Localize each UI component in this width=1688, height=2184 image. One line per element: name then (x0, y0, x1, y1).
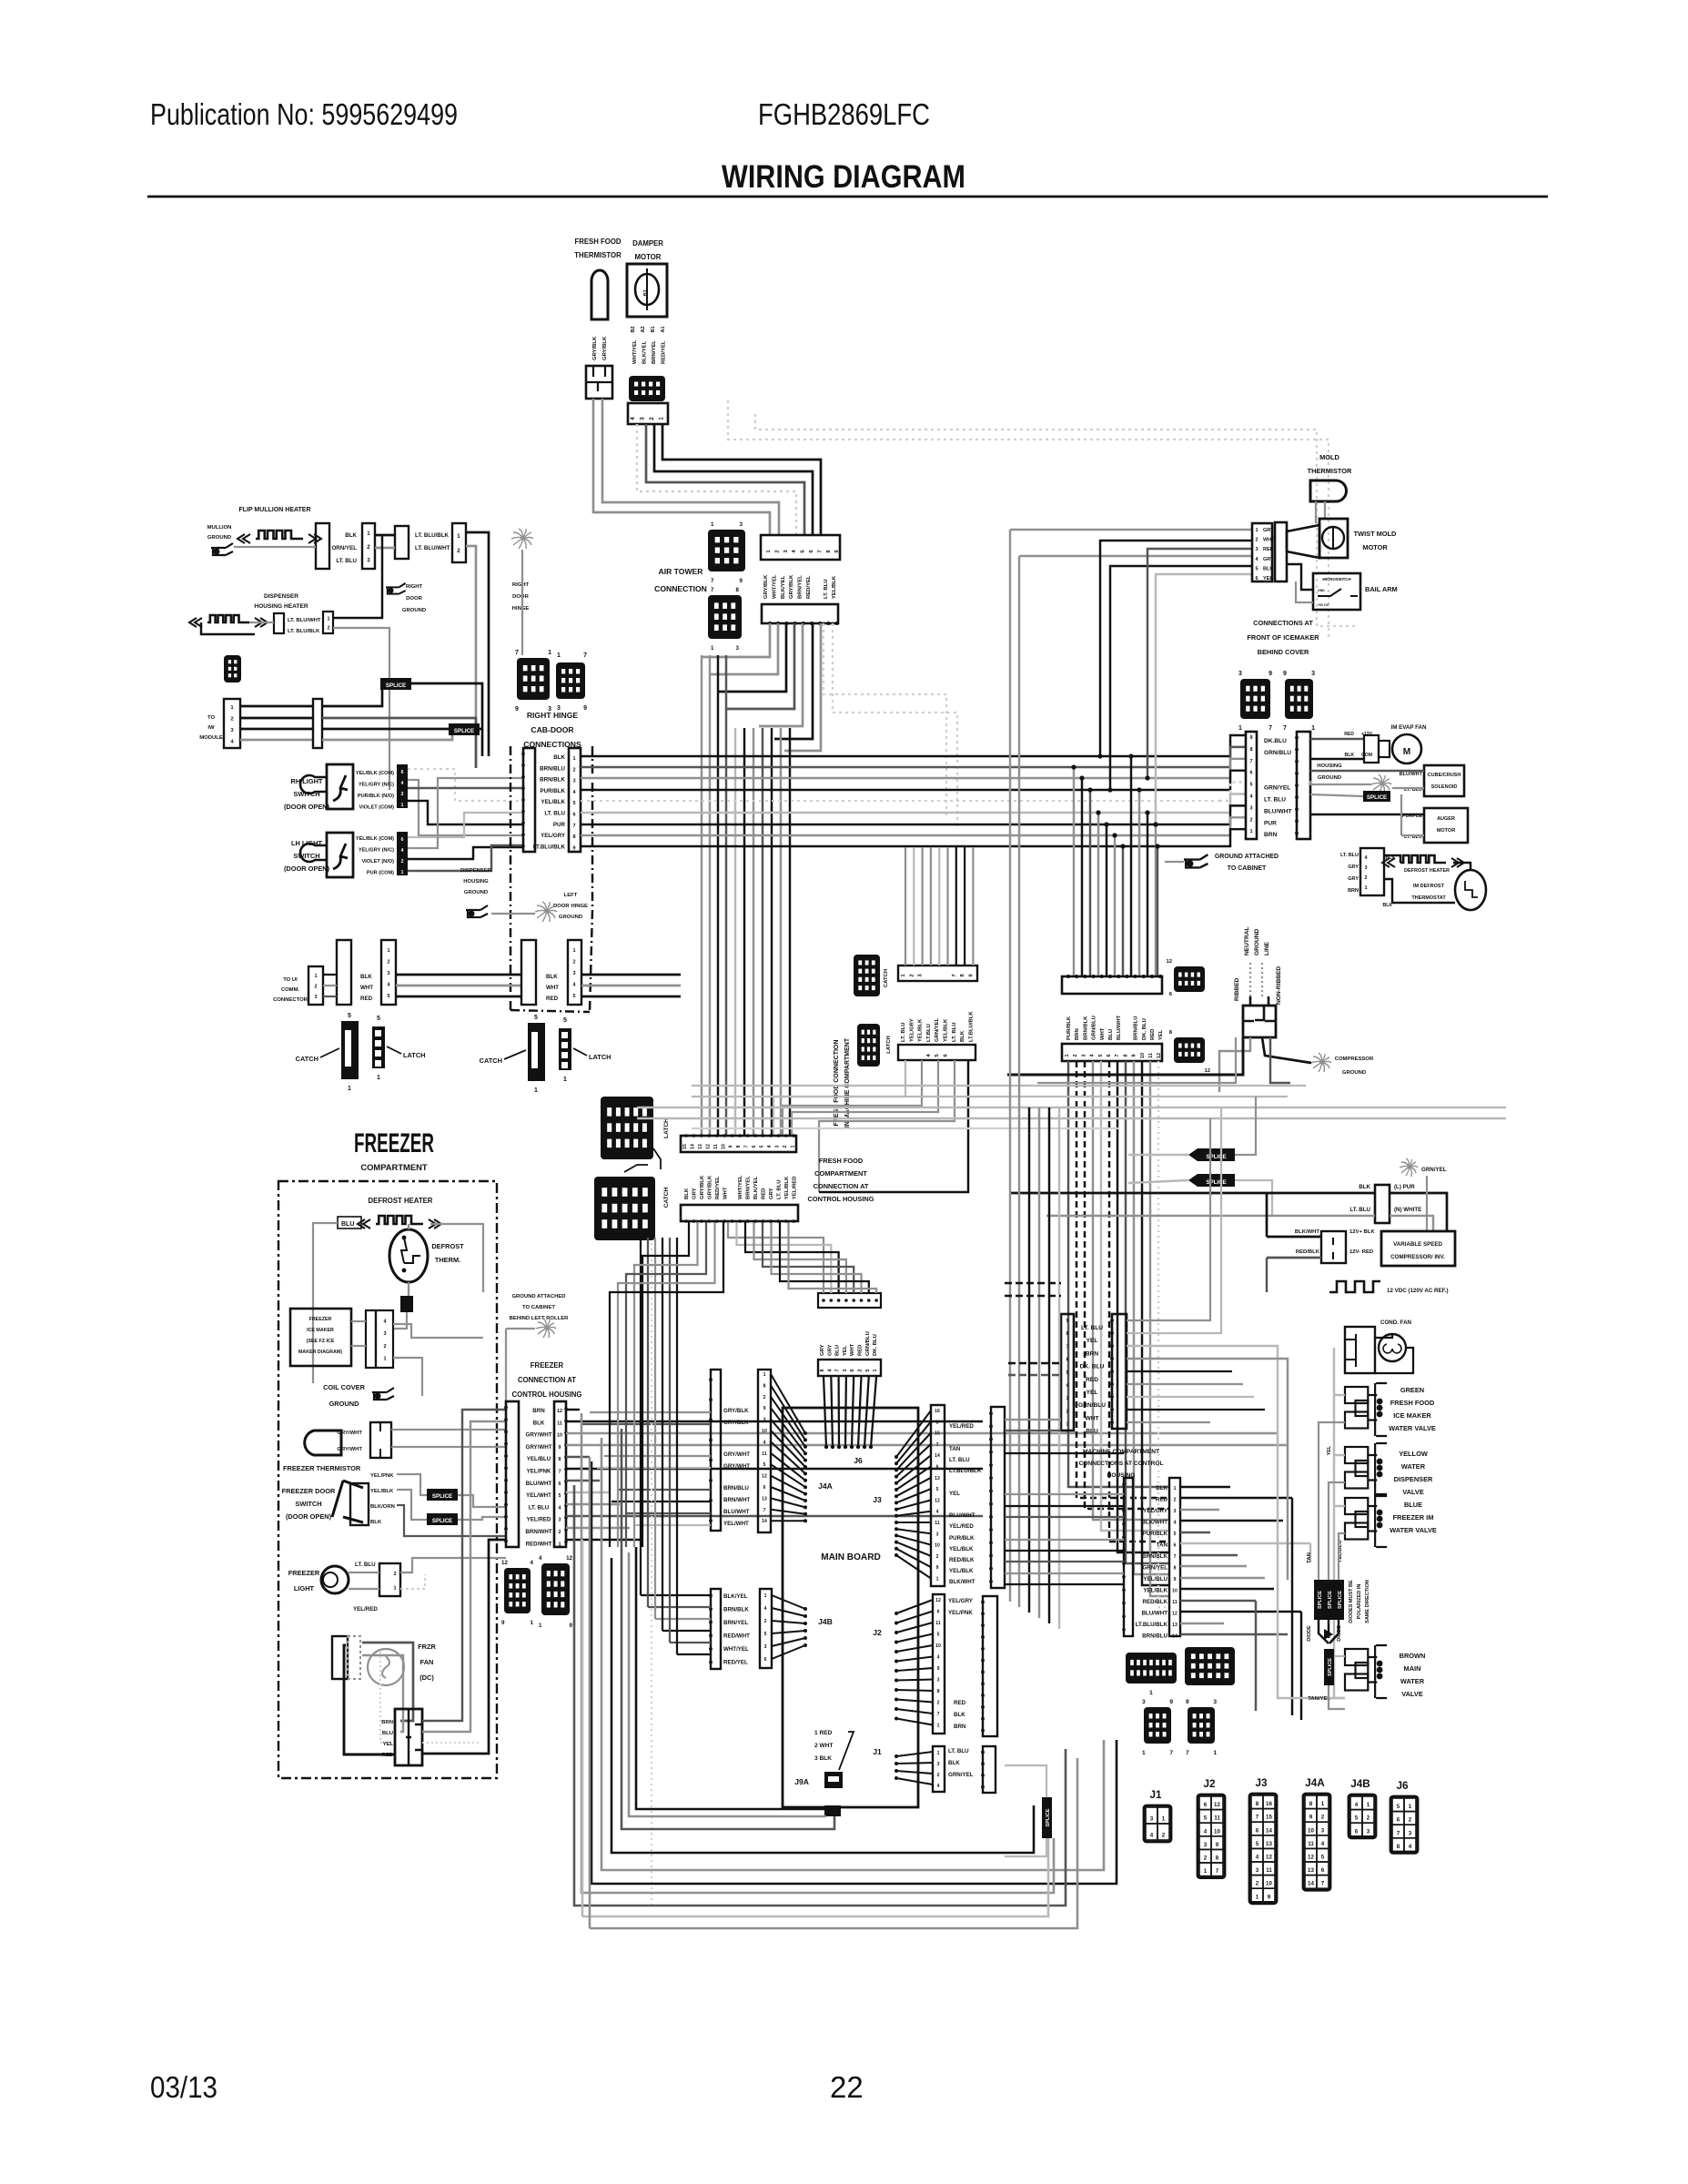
svg-text:YEL/RED: YEL/RED (527, 1517, 551, 1523)
svg-text:GRY/BLK: GRY/BLK (763, 574, 769, 599)
svg-text:2: 2 (327, 625, 329, 631)
svg-text:1: 1 (936, 1577, 939, 1582)
svg-text:GRY: GRY (769, 1188, 774, 1199)
svg-text:GRY/BLK: GRY/BLK (789, 574, 794, 599)
svg-text:1: 1 (327, 616, 329, 622)
damper motor connector (629, 376, 665, 401)
svg-text:1: 1 (1213, 1750, 1217, 1756)
svg-text:9: 9 (936, 1565, 939, 1571)
svg-text:8: 8 (1309, 1801, 1313, 1807)
bottom 3x3 connector B (1188, 1707, 1215, 1744)
svg-text:3: 3 (937, 1762, 940, 1767)
svg-text:SPLICE: SPLICE (1046, 1808, 1051, 1826)
svg-text:12 VDC (120V AC REF.): 12 VDC (120V AC REF.) (1387, 1288, 1449, 1294)
svg-text:COMM.: COMM. (281, 987, 300, 993)
svg-text:LT. BLU: LT. BLU (901, 1023, 906, 1042)
svg-text:RED/YEL: RED/YEL (715, 1176, 721, 1199)
UI wires (323, 974, 337, 976)
svg-text:11: 11 (935, 1521, 940, 1526)
svg-text:GROUND: GROUND (402, 608, 426, 613)
svg-text:5: 5 (1204, 1815, 1208, 1822)
svg-text:2: 2 (1204, 1855, 1208, 1862)
svg-text:RED/BLK: RED/BLK (949, 1557, 975, 1563)
svg-text:13: 13 (935, 1476, 940, 1481)
svg-text:PUR/BLK: PUR/BLK (1143, 1531, 1168, 1537)
svg-text:GROUND: GROUND (1318, 775, 1341, 781)
svg-text:12: 12 (557, 1409, 562, 1414)
gray bus 5 (692, 1096, 1288, 1097)
svg-text:YEL/GRY (N/C): YEL/GRY (N/C) (359, 783, 394, 788)
svg-text:AUGER: AUGER (1437, 816, 1455, 822)
svg-text:YEL: YEL (1263, 576, 1273, 581)
svg-text:LT. BLU: LT. BLU (1081, 1325, 1103, 1331)
RH switch connector (397, 764, 408, 808)
svg-text:IW: IW (207, 725, 215, 731)
svg-text:9: 9 (937, 1666, 940, 1672)
fresh food thermistor bulb (591, 270, 608, 319)
svg-text:9: 9 (1269, 671, 1272, 677)
svg-text:4: 4 (1204, 1828, 1208, 1835)
svg-text:CATCH: CATCH (296, 1055, 318, 1063)
svg-text:SPLICE: SPLICE (1206, 1179, 1226, 1186)
svg-text:4: 4 (767, 1145, 773, 1148)
svg-text:GRY/BLK: GRY/BLK (723, 1408, 749, 1414)
big catch grid connector (594, 1177, 655, 1240)
svg-text:5: 5 (1174, 1532, 1177, 1537)
svg-text:SWITCH: SWITCH (295, 1500, 321, 1508)
svg-text:8: 8 (1249, 747, 1252, 753)
svg-text:MOTOR: MOTOR (1362, 543, 1388, 551)
svg-text:2: 2 (937, 1773, 940, 1778)
splice wires (1128, 1154, 1188, 1156)
bottom black grid connector A (1126, 1653, 1177, 1683)
air tower 9-pin connector lower (762, 604, 838, 623)
svg-text:LT. BLU: LT. BLU (952, 1023, 957, 1042)
svg-text:3: 3 (367, 557, 370, 563)
dispenser housing ground clamp (466, 905, 488, 917)
svg-text:1: 1 (1409, 1804, 1412, 1810)
svg-text:BRN/BLK: BRN/BLK (540, 777, 565, 784)
svg-text:(L) PUR: (L) PUR (1394, 1184, 1415, 1190)
svg-text:WHT: WHT (360, 985, 373, 991)
svg-text:SPLICE: SPLICE (1206, 1154, 1226, 1160)
svg-text:FREEZER DOOR: FREEZER DOOR (282, 1487, 336, 1495)
svg-text:RED: RED (546, 996, 559, 1002)
svg-text:WHT: WHT (1100, 1027, 1106, 1040)
svg-text:GRY/WHT: GRY/WHT (723, 1451, 750, 1458)
svg-text:SPLICE: SPLICE (1318, 1591, 1323, 1609)
small connector WHT BLK (224, 655, 241, 682)
svg-text:15: 15 (682, 1144, 688, 1149)
svg-text:4: 4 (1321, 1841, 1325, 1847)
svg-text:FREEZER: FREEZER (288, 1569, 320, 1577)
svg-text:LT.BLU: LT.BLU (926, 1024, 932, 1042)
svg-text:YEL/GRY: YEL/GRY (909, 1018, 915, 1042)
frzr fan connector (332, 1636, 348, 1679)
svg-text:BLU/WHT: BLU/WHT (1264, 808, 1291, 814)
svg-text:GRN/YEL: GRN/YEL (1264, 785, 1290, 792)
svg-text:5: 5 (1321, 1855, 1325, 1861)
catch connector (341, 1021, 359, 1079)
svg-text:VALVE: VALVE (1401, 1690, 1423, 1698)
svg-text:2: 2 (314, 984, 317, 989)
J6 fan (824, 1376, 826, 1447)
J9A connector (824, 1772, 843, 1788)
svg-text:BLK: BLK (954, 1712, 965, 1718)
roller ground frazzle (536, 1319, 556, 1338)
mid splice A (1198, 1148, 1235, 1161)
svg-text:LT. BLU: LT. BLU (1349, 1207, 1370, 1213)
svg-text:GND: GND (1318, 589, 1325, 592)
svg-text:8: 8 (937, 1689, 940, 1694)
svg-text:11: 11 (713, 1144, 719, 1149)
diode join (1319, 1620, 1329, 1643)
J4B fan (772, 1595, 805, 1609)
svg-text:4: 4 (539, 1555, 542, 1562)
svg-text:12: 12 (1204, 1068, 1210, 1074)
svg-text:BRN/BLK: BRN/BLK (1142, 1553, 1167, 1560)
svg-text:RED: RED (1086, 1377, 1098, 1383)
svg-text:3: 3 (1255, 547, 1258, 552)
svg-text:7: 7 (744, 1145, 750, 1148)
svg-text:3: 3 (936, 1532, 939, 1537)
svg-text:SWITCH: SWITCH (293, 852, 319, 860)
svg-text:FRZR: FRZR (418, 1643, 436, 1651)
J4A connector (758, 1370, 771, 1532)
svg-text:1 RED: 1 RED (814, 1730, 833, 1736)
svg-text:DK. BLU: DK. BLU (873, 1334, 878, 1356)
svg-text:9: 9 (572, 845, 575, 851)
svg-text:MOTOR: MOTOR (635, 253, 662, 261)
svg-text:3: 3 (740, 521, 743, 528)
svg-text:6: 6 (850, 1369, 855, 1371)
svg-text:MULLION: MULLION (207, 525, 232, 531)
svg-text:BLU/WHT: BLU/WHT (1117, 1015, 1122, 1040)
boundary bottom dash (510, 1010, 590, 1012)
svg-text:4: 4 (764, 1606, 767, 1612)
svg-text:LT. BLU: LT. BLU (949, 1457, 970, 1463)
svg-text:BRN: BRN (1348, 888, 1359, 894)
single splice below diodes (1324, 1649, 1334, 1685)
svg-text:2: 2 (558, 1530, 561, 1535)
svg-text:BLK/YEL: BLK/YEL (781, 575, 786, 599)
svg-text:3: 3 (1256, 1867, 1259, 1874)
svg-text:DISPENSER: DISPENSER (460, 868, 492, 874)
freezer light capsule (305, 1431, 341, 1455)
mold thermistor leads (1315, 501, 1317, 523)
svg-text:THERM.: THERM. (435, 1256, 460, 1264)
svg-text:4: 4 (1066, 1383, 1069, 1389)
svg-text:J4B: J4B (818, 1617, 833, 1626)
svg-text:9: 9 (1169, 1699, 1173, 1705)
svg-text:GRN/YEL: GRN/YEL (935, 1017, 940, 1042)
J4B connector (760, 1589, 772, 1668)
svg-text:8: 8 (558, 1457, 561, 1462)
svg-text:7: 7 (1066, 1344, 1069, 1350)
svg-text:MICROSWITCH: MICROSWITCH (1322, 577, 1350, 581)
variable speed compressor box (1381, 1231, 1455, 1266)
svg-text:1: 1 (557, 652, 561, 659)
main horizontal buses from cab-door (581, 755, 1219, 758)
bottom black grid connector B (1185, 1647, 1235, 1685)
svg-text:BRN: BRN (1086, 1350, 1099, 1357)
svg-text:GRY/WHT: GRY/WHT (526, 1444, 552, 1451)
yellow water valve (1345, 1447, 1368, 1463)
svg-text:7: 7 (936, 1442, 939, 1448)
svg-text:A1: A1 (661, 326, 666, 332)
svg-text:YEL/GRY: YEL/GRY (1143, 1508, 1168, 1514)
svg-text:7: 7 (1249, 759, 1252, 764)
defrost heater element right (1400, 855, 1446, 863)
J2 fan (896, 1600, 933, 1613)
svg-text:SPLICE: SPLICE (1338, 1591, 1343, 1609)
svg-text:SPLICE: SPLICE (1367, 794, 1387, 801)
svg-text:RED: RED (1344, 732, 1354, 737)
svg-text:8: 8 (1216, 1855, 1219, 1862)
svg-text:2: 2 (401, 859, 404, 864)
svg-text:TO: TO (207, 715, 215, 721)
svg-text:LEFT: LEFT (564, 893, 578, 898)
svg-text:2: 2 (1367, 1815, 1370, 1822)
svg-text:10: 10 (557, 1433, 562, 1439)
svg-text:GRN/BLU: GRN/BLU (1264, 750, 1291, 756)
therm tail (408, 1282, 409, 1296)
svg-text:LT. BLU/BLK: LT. BLU/BLK (415, 532, 450, 539)
splice tag 1 (380, 678, 411, 690)
svg-text:9: 9 (729, 1145, 734, 1148)
svg-text:2: 2 (383, 1344, 386, 1350)
svg-text:CONNECTIONS AT CONTROL: CONNECTIONS AT CONTROL (1078, 1461, 1163, 1467)
green fresh food valve (1345, 1387, 1368, 1403)
svg-text:CATCH: CATCH (663, 1187, 670, 1208)
wires from damper connector to air tower connector (637, 424, 796, 535)
main board rectangle (783, 1408, 918, 1807)
svg-text:GRY/WHT: GRY/WHT (723, 1463, 750, 1470)
svg-text:M: M (1403, 747, 1410, 757)
svg-text:WHT: WHT (850, 1343, 855, 1356)
svg-text:GRY: GRY (1263, 528, 1274, 533)
svg-text:10: 10 (1140, 1053, 1146, 1058)
svg-text:2: 2 (572, 959, 575, 965)
svg-text:10: 10 (1214, 1828, 1220, 1835)
svg-text:GROUND: GROUND (464, 890, 488, 895)
svg-text:J9A: J9A (794, 1777, 809, 1786)
svg-text:RED: RED (1150, 1029, 1156, 1040)
svg-text:RED/YEL: RED/YEL (806, 575, 812, 599)
svg-text:BLK/YEL: BLK/YEL (753, 1176, 759, 1199)
catch connector (528, 1023, 545, 1081)
svg-text:YEL/BLK: YEL/BLK (784, 1176, 790, 1199)
svg-text:DK. BLU: DK. BLU (1142, 1018, 1147, 1040)
svg-text:BLK/YEL: BLK/YEL (642, 340, 648, 364)
svg-text:13: 13 (1172, 1623, 1178, 1628)
svg-text:DEFROST: DEFROST (431, 1242, 464, 1250)
J4A fan (771, 1374, 805, 1433)
ac plug symbol (1243, 1006, 1276, 1037)
cube/crush solenoid box (1424, 765, 1464, 796)
svg-text:WIRING DIAGRAM: WIRING DIAGRAM (722, 159, 965, 195)
svg-text:2: 2 (1162, 1833, 1166, 1839)
UI connector 3-pin (308, 966, 323, 1005)
svg-text:FRESH FOOD: FRESH FOOD (574, 238, 621, 246)
svg-text:6: 6 (1174, 1543, 1177, 1549)
svg-text:6: 6 (1107, 1054, 1112, 1057)
svg-text:BLU: BLU (1086, 1429, 1098, 1435)
svg-text:LATCH: LATCH (589, 1053, 612, 1061)
svg-text:9: 9 (1066, 1319, 1069, 1324)
svg-text:RH LIGHT: RH LIGHT (291, 777, 323, 785)
housing ground frazzle (1371, 774, 1391, 794)
svg-text:J1: J1 (1149, 1789, 1162, 1801)
fresh food 9-pin connector (898, 966, 977, 981)
svg-text:DOOR: DOOR (512, 594, 529, 600)
svg-text:DOOR HINGE: DOOR HINGE (553, 904, 588, 909)
svg-text:5: 5 (377, 1016, 380, 1022)
fifteen pin left drops (642, 1221, 689, 1547)
svg-text:9: 9 (1186, 1699, 1189, 1705)
svg-text:BLK: BLK (546, 974, 558, 980)
svg-text:4: 4 (1256, 1855, 1259, 1861)
svg-text:3: 3 (763, 1418, 766, 1423)
svg-text:RED: RED (1156, 1497, 1168, 1503)
svg-text:WATER VALVE: WATER VALVE (1389, 1424, 1436, 1432)
svg-text:VIOLET (N/O): VIOLET (N/O) (362, 859, 395, 864)
frzr fan circle (368, 1649, 404, 1685)
svg-text:9: 9 (1249, 735, 1252, 741)
svg-text:1: 1 (383, 1357, 386, 1362)
plug wires down (1219, 1037, 1250, 1092)
svg-text:BRN: BRN (954, 1724, 966, 1730)
svg-text:RED: RED (360, 996, 373, 1002)
door boundary dash-dot right (591, 746, 593, 910)
svg-text:YEL: YEL (383, 1742, 394, 1747)
svg-text:CONNECTIONS AT: CONNECTIONS AT (1253, 619, 1313, 627)
svg-text:13: 13 (1308, 1867, 1314, 1874)
svg-text:1: 1 (1364, 885, 1367, 891)
svg-text:J1: J1 (873, 1747, 882, 1756)
svg-text:7: 7 (937, 1712, 940, 1717)
12vdc square wave (1329, 1281, 1380, 1292)
splice to brown valve wire (1329, 1685, 1345, 1709)
svg-text:YEL/BLK: YEL/BLK (949, 1546, 974, 1552)
svg-text:LT. BLU/WHT: LT. BLU/WHT (415, 545, 450, 551)
splice tag 2 (449, 723, 480, 735)
svg-text:10: 10 (935, 1643, 941, 1649)
svg-text:3: 3 (764, 1644, 767, 1650)
svg-text:LT. BLU: LT. BLU (336, 558, 357, 564)
svg-text:J4A: J4A (1305, 1777, 1325, 1789)
svg-text:1: 1 (367, 531, 370, 537)
svg-text:TO CABINET: TO CABINET (522, 1305, 555, 1310)
svg-text:WHT/YEL: WHT/YEL (632, 339, 638, 364)
svg-text:5: 5 (937, 1633, 940, 1638)
svg-text:YEL/BLK: YEL/BLK (832, 575, 837, 599)
svg-text:FLIP MULLION HEATER: FLIP MULLION HEATER (238, 507, 310, 513)
svg-text:1: 1 (387, 948, 389, 954)
freezer ice maker box (290, 1309, 351, 1366)
mid vertical bundle left of machine bars (1009, 530, 1011, 1602)
svg-text:GROUND: GROUND (1342, 1070, 1366, 1076)
svg-text:1: 1 (937, 1751, 940, 1756)
air tower connector B (708, 595, 742, 639)
brown main valve (1345, 1649, 1368, 1665)
svg-text:13: 13 (698, 1144, 703, 1149)
svg-text:CONNECTION AT: CONNECTION AT (518, 1376, 576, 1384)
svg-text:13: 13 (1266, 1841, 1272, 1847)
svg-text:YEL: YEL (1158, 1029, 1164, 1040)
svg-text:J6: J6 (854, 1456, 863, 1465)
gray bus 2 (637, 1117, 1506, 1119)
svg-text:YEL: YEL (843, 1345, 848, 1356)
J2 connector (933, 1594, 945, 1734)
svg-text:LT.BLU/BLK: LT.BLU/BLK (1136, 1622, 1168, 1628)
fresh food 15-pin lower connector (681, 1205, 798, 1221)
latch connector (559, 1028, 571, 1070)
svg-text:7: 7 (711, 587, 714, 593)
svg-text:COMPARTMENT: COMPARTMENT (814, 1169, 867, 1178)
svg-text:YEL/BLK (COM): YEL/BLK (COM) (356, 771, 394, 776)
svg-text:J3: J3 (1255, 1777, 1268, 1789)
svg-text:8: 8 (1397, 1844, 1400, 1850)
left bar for J4A (711, 1370, 721, 1531)
svg-text:6: 6 (763, 1485, 766, 1491)
svg-text:LT.BLU/BLK: LT.BLU/BLK (949, 1468, 982, 1474)
svg-text:RIGHT: RIGHT (406, 584, 423, 590)
svg-text:6: 6 (764, 1657, 767, 1663)
svg-text:YEL/BLK: YEL/BLK (944, 1018, 949, 1042)
svg-text:11: 11 (762, 1451, 767, 1457)
svg-text:ORN/YEL: ORN/YEL (331, 545, 357, 551)
freezer black grid connector B (541, 1563, 570, 1615)
LH switch connector (397, 832, 408, 875)
svg-text:22: 22 (830, 2070, 864, 2104)
IW long connector (313, 699, 322, 748)
svg-text:BRN/BLU: BRN/BLU (1142, 1633, 1167, 1640)
svg-text:3: 3 (937, 1678, 940, 1683)
bus risers to icemaker 6-pin (1010, 529, 1252, 531)
svg-text:J6: J6 (1396, 1780, 1409, 1792)
svg-text:PUR: PUR (553, 822, 566, 828)
svg-text:RED: RED (954, 1700, 966, 1706)
mold thermistor capsule (1310, 480, 1347, 501)
dashes into 9-pin (1008, 1362, 1061, 1364)
svg-text:GRY: GRY (820, 1344, 825, 1356)
svg-text:1: 1 (1174, 1486, 1177, 1491)
svg-text:BLU: BLU (341, 1221, 354, 1228)
svg-text:TAN: TAN (1307, 1552, 1312, 1563)
svg-text:14: 14 (1266, 1827, 1272, 1834)
svg-text:LATCH: LATCH (886, 1036, 892, 1054)
wires from J4A bar to left verticals (590, 1411, 711, 1413)
air tower 9-pin connector upper (761, 535, 840, 560)
machine 9-pin right bar (1112, 1314, 1127, 1429)
svg-text:HOUSING: HOUSING (1317, 763, 1342, 769)
svg-text:PUR (COM): PUR (COM) (367, 871, 394, 876)
svg-text:+5V DC: +5V DC (1318, 603, 1329, 607)
pur/blk bottom bar (1062, 1044, 1162, 1061)
svg-text:12: 12 (1172, 1612, 1178, 1617)
svg-text:DAMPER: DAMPER (632, 239, 663, 248)
svg-text:5: 5 (558, 1493, 561, 1499)
damper 4-pin connector (628, 403, 668, 424)
svg-text:FREEZER THERMISTOR: FREEZER THERMISTOR (283, 1464, 361, 1472)
microswitch wires (1287, 564, 1313, 590)
J3 right bar (991, 1407, 1005, 1588)
svg-text:WATER: WATER (1401, 1462, 1426, 1471)
svg-text:6: 6 (1249, 771, 1252, 776)
svg-text:2: 2 (457, 548, 460, 554)
svg-text:4: 4 (630, 417, 636, 420)
